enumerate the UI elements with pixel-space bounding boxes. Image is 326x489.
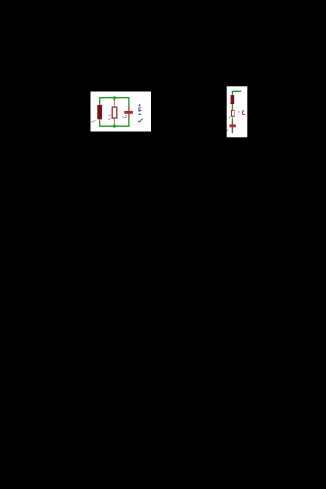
wire L2-R2 [231,105,233,109]
label C2 [227,129,228,130]
label C1 [123,115,127,118]
capacitor C1 plates [124,111,133,114]
label R2 [229,117,231,119]
pin L2 top [231,94,233,96]
resistor R1 body [112,107,117,118]
resistor R2 body [232,110,235,116]
pin C1 top [128,105,130,112]
source value text (blue, rotated) [138,104,143,122]
wire R2-C2 [231,119,233,123]
pin L2 bottom [231,104,233,105]
label L1 [91,120,95,122]
wire middle branch upper [113,98,115,102]
wire right branch lower [128,119,130,127]
schematic panel 2 (series RLC circuit) background [227,86,248,137]
pin C2 top [231,122,233,125]
wire middle branch lower [113,124,115,127]
designator text (red) [242,111,244,115]
wire right branch upper [128,97,130,105]
pin R1 bottom [113,118,115,124]
wire bottom bus [100,125,129,127]
pin R2 bottom [231,116,233,119]
wire left branch upper [99,97,101,104]
junction node bottom [113,125,116,128]
pin C1 bottom [128,114,130,120]
wire C2 bottom stub [231,130,233,133]
pin L1 bottom [99,119,101,122]
wire left branch lower [99,121,101,127]
wire top corner [232,91,241,94]
label R1 [108,115,111,119]
junction node top [113,96,116,99]
value text R2 (red) [238,111,239,113]
capacitor C2 plates [230,124,236,127]
wire top bus [100,97,129,99]
inductor L1 body [97,105,102,119]
pin R2 top [231,109,233,111]
label L2 [230,102,231,104]
pin L1 top [99,104,101,106]
pin C2 bottom [231,127,233,130]
pin R1 top [113,101,115,107]
schematic panel 1 (parallel RLC circuit) background [91,92,152,132]
inductor L2 body [231,95,235,104]
